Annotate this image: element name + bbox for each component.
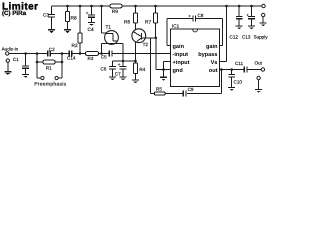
resistor R5 bbox=[151, 92, 166, 95]
wire T2 base out bbox=[142, 37, 156, 39]
label R2 bbox=[72, 43, 78, 49]
svg-text:C6: C6 bbox=[101, 67, 107, 72]
pin label out bbox=[209, 68, 218, 74]
wire C8 to gain left bbox=[167, 19, 171, 46]
label C10 bbox=[234, 79, 243, 84]
pin label -input bbox=[173, 51, 189, 58]
label R3 bbox=[88, 56, 94, 61]
node rail-R6 bbox=[134, 5, 137, 8]
title Limiter bbox=[2, 2, 39, 13]
label C2 bbox=[49, 47, 55, 52]
node rail-R8 bbox=[66, 5, 69, 8]
wire rail to T1 bbox=[102, 6, 107, 33]
svg-text:-input: -input bbox=[173, 51, 189, 58]
node rail-C13 bbox=[250, 5, 253, 8]
label C1 bbox=[13, 57, 19, 62]
svg-text:out: out bbox=[209, 68, 218, 74]
terminal jumper right bbox=[55, 76, 58, 79]
node rail-R2 bbox=[79, 5, 82, 8]
wire gnd pin bbox=[156, 69, 171, 71]
capacitor C1 bbox=[22, 54, 29, 75]
resistor R1 bbox=[37, 60, 62, 64]
transistor T1 bbox=[105, 31, 119, 45]
wire C9 to out bbox=[187, 70, 222, 94]
svg-text:C11: C11 bbox=[235, 61, 244, 66]
capacitor C13 bbox=[248, 6, 255, 26]
capacitor C8 bbox=[167, 16, 223, 22]
capacitor C3 bbox=[48, 6, 55, 30]
terminal audio out bbox=[261, 68, 264, 71]
resistor R6 bbox=[133, 6, 137, 30]
svg-text:R5: R5 bbox=[156, 86, 162, 91]
svg-text:C3: C3 bbox=[43, 13, 49, 18]
svg-text:R4: R4 bbox=[139, 67, 145, 72]
subtitle (C) PiRa bbox=[2, 10, 27, 17]
capacitor C14 bbox=[62, 51, 86, 57]
wire T1 emitter to input node bbox=[101, 44, 103, 54]
svg-text:C4: C4 bbox=[88, 27, 94, 33]
svg-text:+: + bbox=[118, 62, 121, 67]
label Preemphasis bbox=[34, 82, 66, 88]
label C7 bbox=[115, 72, 121, 77]
wire +input stub bbox=[164, 62, 171, 70]
svg-text:R7: R7 bbox=[145, 19, 151, 25]
ground under R4 bbox=[132, 80, 139, 83]
resistor R3 bbox=[86, 52, 99, 56]
capacitor C12 bbox=[236, 6, 243, 26]
wire input bbox=[9, 53, 37, 55]
svg-text:C8: C8 bbox=[198, 13, 204, 18]
label Supply bbox=[254, 34, 269, 39]
svg-text:Vs: Vs bbox=[211, 60, 218, 66]
label T1 bbox=[106, 24, 112, 30]
IC U1 body bbox=[171, 29, 220, 87]
svg-text:R1: R1 bbox=[46, 66, 52, 71]
node rail-Vs bbox=[225, 5, 228, 8]
ground supply bbox=[260, 23, 267, 26]
wire C5 to -input bbox=[112, 53, 170, 55]
polarity mark C8 bbox=[188, 14, 191, 19]
svg-text:R9: R9 bbox=[112, 9, 118, 15]
label R9 bbox=[112, 9, 118, 15]
terminal jumper left bbox=[41, 76, 44, 79]
transistor T2 bbox=[132, 29, 146, 43]
node bus-C7 bbox=[122, 60, 125, 63]
node bus-R4 bbox=[134, 60, 137, 63]
svg-text:C9: C9 bbox=[188, 87, 194, 92]
svg-text:+: + bbox=[86, 11, 89, 16]
svg-text:+input: +input bbox=[173, 59, 190, 66]
ground under C13 bbox=[248, 26, 255, 29]
svg-text:Audio in: Audio in bbox=[2, 46, 19, 51]
node rail-C12 bbox=[238, 5, 241, 8]
wire T2 base to R5 bbox=[150, 38, 152, 94]
label C3 bbox=[43, 13, 49, 18]
svg-text:C14: C14 bbox=[67, 56, 76, 61]
wire Vs riser bbox=[220, 6, 227, 62]
capacitor C2 bbox=[37, 51, 62, 57]
wire T1 emitter bus bbox=[102, 43, 124, 45]
ground IC gnd bbox=[160, 77, 167, 80]
svg-text:R8: R8 bbox=[71, 15, 77, 21]
label C5 bbox=[101, 55, 107, 60]
capacitor C9 bbox=[165, 91, 186, 97]
svg-text:T1: T1 bbox=[106, 24, 112, 30]
wire top supply rail right segment bbox=[122, 5, 262, 7]
wire supply minus ground bbox=[262, 17, 264, 23]
wire preemph left drop bbox=[36, 54, 38, 63]
pin label gnd bbox=[173, 67, 184, 74]
wire T2 base to gnd pin bbox=[155, 38, 157, 70]
terminal supply minus bbox=[262, 13, 265, 16]
pin label bypass bbox=[198, 51, 217, 58]
label T2 bbox=[143, 42, 149, 47]
node gnd junction bbox=[162, 68, 165, 71]
node rail-T1 bbox=[100, 5, 103, 8]
label C14 bbox=[67, 56, 76, 61]
ground under C4 bbox=[88, 23, 95, 26]
label R7 bbox=[145, 19, 151, 25]
terminal audio in ground bbox=[6, 59, 9, 62]
label R4 bbox=[139, 67, 145, 72]
svg-text:(C) PiRa: (C) PiRa bbox=[2, 10, 27, 17]
svg-text:IC1: IC1 bbox=[172, 24, 180, 29]
label C11 bbox=[235, 61, 244, 66]
label C4 bbox=[88, 27, 94, 33]
ground under C3 bbox=[48, 30, 55, 33]
ground under R8 bbox=[64, 30, 71, 33]
node out-C10 bbox=[230, 68, 233, 71]
svg-text:R6: R6 bbox=[124, 19, 130, 25]
node branch right bbox=[61, 61, 64, 64]
resistor R8 bbox=[65, 6, 69, 30]
resistor R2 bbox=[78, 6, 82, 54]
node preemph right bbox=[61, 52, 64, 55]
svg-text:C10: C10 bbox=[234, 79, 243, 84]
node rail-R7 bbox=[154, 5, 157, 8]
svg-text:C13: C13 bbox=[242, 34, 251, 39]
resistor R4 bbox=[133, 61, 137, 80]
node rail-C4 bbox=[90, 5, 93, 8]
label C6 bbox=[101, 67, 107, 72]
pin label Vs bbox=[211, 60, 218, 66]
ground under C12 bbox=[236, 26, 243, 29]
terminal audio in bbox=[6, 52, 9, 55]
polarity mark C13 bbox=[246, 12, 249, 17]
label R5 bbox=[156, 86, 162, 91]
svg-text:gain: gain bbox=[173, 43, 185, 50]
svg-text:R2: R2 bbox=[72, 43, 78, 49]
label Audio in bbox=[2, 46, 19, 51]
polarity mark C4 bbox=[86, 11, 89, 16]
wire C11 to out terminal bbox=[247, 69, 261, 71]
label R8 bbox=[71, 15, 77, 21]
svg-text:C2: C2 bbox=[49, 47, 55, 52]
wire out ground bbox=[258, 80, 260, 90]
wire preemph right drop bbox=[61, 54, 63, 63]
label IC1 bbox=[172, 24, 180, 29]
capacitor C7 bbox=[120, 61, 127, 77]
ground under C1 bbox=[22, 75, 29, 78]
ground under C6 bbox=[109, 77, 116, 80]
svg-text:+: + bbox=[246, 12, 249, 17]
wire top supply rail left segment bbox=[52, 5, 111, 7]
capacitor C6 bbox=[109, 61, 116, 77]
label C13 bbox=[242, 34, 251, 39]
capacitor C5 bbox=[109, 51, 112, 57]
ground out terminal bbox=[255, 89, 262, 92]
wire T2 emitter down bbox=[135, 42, 137, 61]
label Out bbox=[255, 60, 263, 65]
capacitor C4 bbox=[88, 6, 95, 22]
node preemph left bbox=[36, 52, 39, 55]
polarity mark C7 bbox=[118, 62, 121, 67]
wire gnd to ground bbox=[163, 70, 165, 78]
wire T1 emitter to C7 node bbox=[122, 44, 124, 62]
svg-text:bypass: bypass bbox=[198, 51, 217, 58]
wire bias bus bbox=[113, 60, 136, 62]
svg-text:C5: C5 bbox=[101, 55, 107, 60]
label C8 bbox=[198, 13, 204, 18]
svg-text:gnd: gnd bbox=[173, 67, 184, 74]
capacitor C11 bbox=[244, 67, 247, 73]
terminal out ground bbox=[257, 76, 260, 79]
node T2-R7 bbox=[155, 37, 158, 40]
node out-C9 bbox=[220, 68, 223, 71]
svg-text:C7: C7 bbox=[115, 72, 121, 77]
wire R3 to C5 bbox=[99, 53, 109, 55]
label C9 bbox=[188, 87, 194, 92]
wire out pin bbox=[220, 69, 244, 71]
node branch left bbox=[36, 61, 39, 64]
wire jumper left bbox=[37, 62, 41, 78]
capacitor C10 bbox=[228, 70, 235, 88]
node input-C1 bbox=[24, 52, 27, 55]
ground under C10 bbox=[228, 88, 235, 91]
ground under C7 bbox=[120, 77, 127, 80]
wire input ground bbox=[7, 62, 9, 71]
pin label gain left bbox=[173, 43, 185, 50]
svg-text:C12: C12 bbox=[230, 34, 239, 39]
pin label gain right bbox=[206, 43, 218, 50]
resistor R7 bbox=[153, 6, 157, 38]
svg-text:gain: gain bbox=[206, 43, 218, 50]
svg-text:T2: T2 bbox=[143, 42, 149, 47]
svg-text:C1: C1 bbox=[13, 57, 19, 62]
resistor R9 bbox=[110, 4, 122, 8]
svg-text:+: + bbox=[188, 14, 191, 19]
label C12 bbox=[230, 34, 239, 39]
pin label +input bbox=[173, 59, 190, 66]
svg-text:R3: R3 bbox=[88, 56, 94, 61]
node R2-signal bbox=[79, 52, 82, 55]
svg-text:Preemphasis: Preemphasis bbox=[34, 82, 66, 88]
svg-text:Supply: Supply bbox=[254, 34, 269, 39]
wire jumper right bbox=[58, 62, 62, 78]
label R6 bbox=[124, 19, 130, 25]
label R1 bbox=[46, 66, 52, 71]
ground input bbox=[4, 72, 11, 75]
node T1-signal bbox=[100, 52, 103, 55]
svg-text:Out: Out bbox=[255, 60, 263, 65]
terminal supply plus bbox=[262, 4, 265, 7]
wire C8 to gain right bbox=[220, 19, 223, 46]
